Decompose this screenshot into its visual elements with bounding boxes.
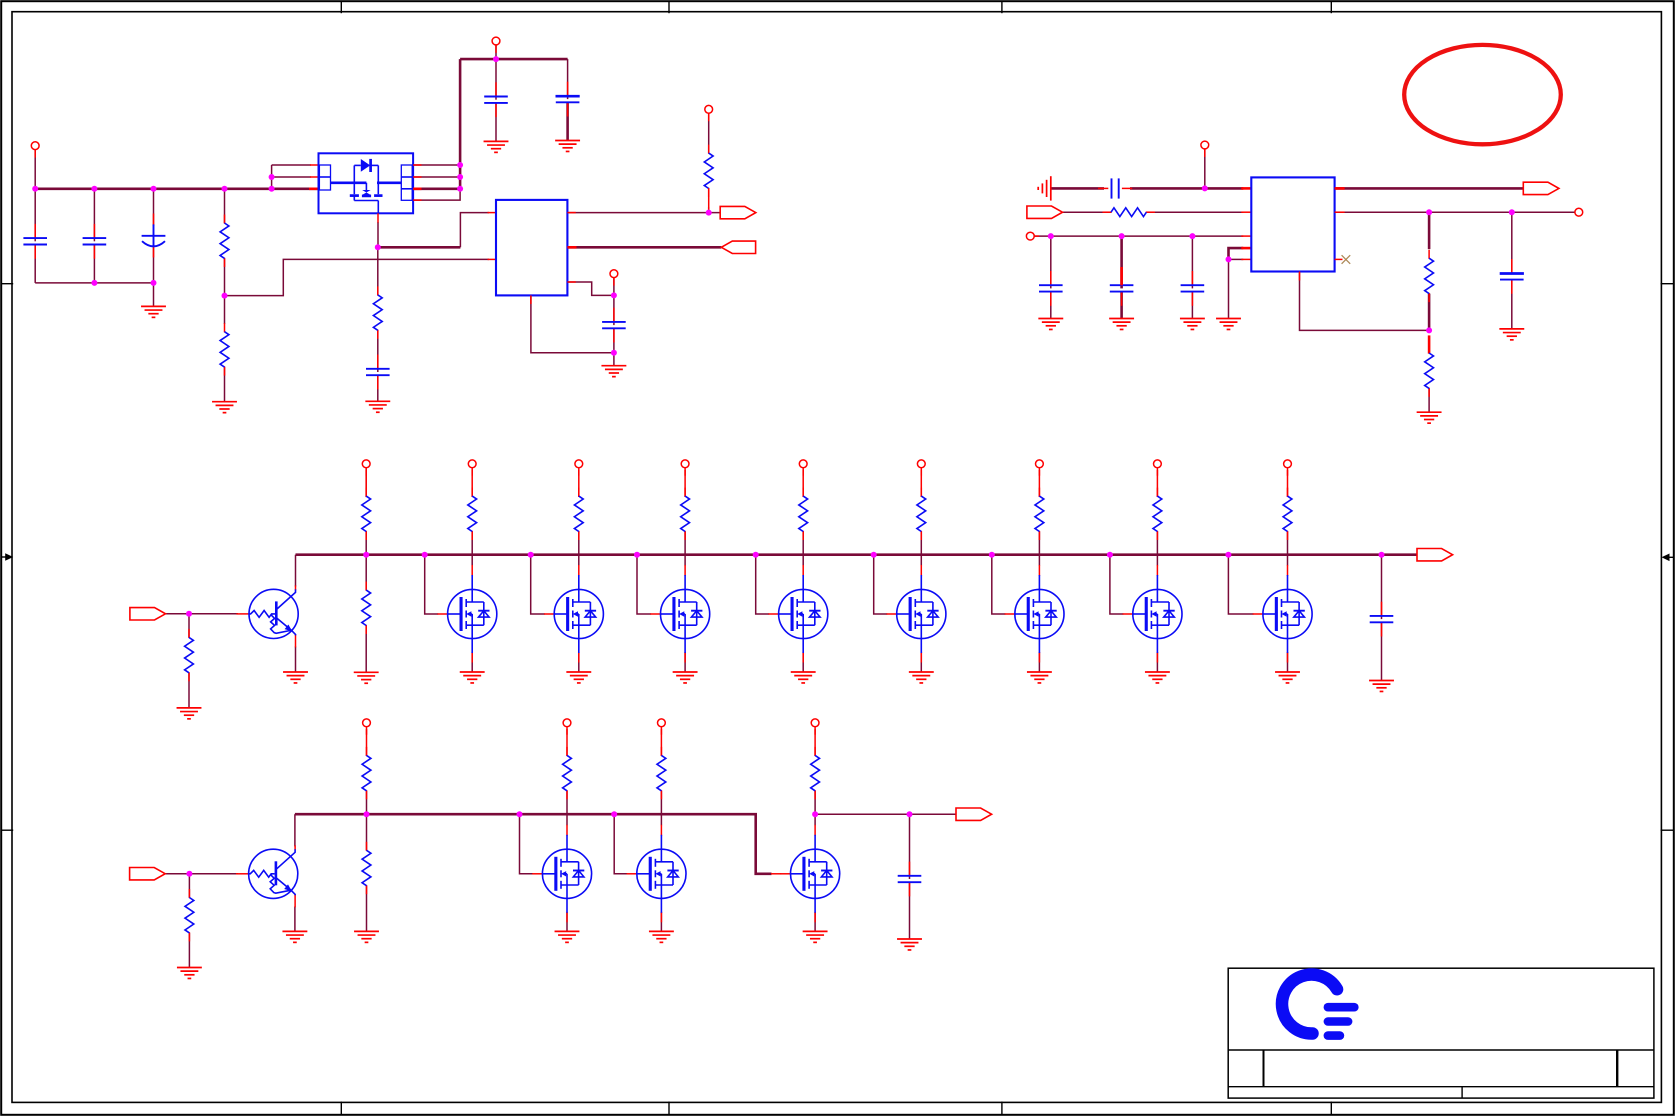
wire C16 top lead	[909, 814, 911, 879]
ground below C15	[1369, 681, 1394, 692]
wire Rp6 to Q7 drain	[1038, 532, 1040, 566]
ground below Q4	[673, 672, 698, 683]
junction bus gate5	[753, 552, 759, 558]
junction R1 R2 tap	[222, 293, 228, 299]
ground below C5	[555, 141, 580, 152]
pin stub Rp1 top	[471, 470, 473, 497]
wire P7 to Q10	[165, 873, 238, 875]
junction bus2 gate2	[611, 811, 617, 817]
pin stub Rb3 top	[814, 729, 816, 756]
wire rail to R1	[224, 189, 226, 223]
power terminal T4	[705, 105, 713, 121]
wire R2 to ground	[224, 367, 226, 401]
left border center arrow	[1, 553, 13, 561]
junction row3 C13	[1189, 233, 1195, 239]
junction row3 C11	[1048, 233, 1054, 239]
wire Q5 source to ground	[802, 653, 804, 672]
wire P5 to Q1	[166, 613, 239, 615]
junction bus gate8	[1107, 552, 1113, 558]
power terminal T7	[1026, 232, 1039, 240]
wire R5 to U3	[1146, 211, 1243, 213]
ground below U3 pins	[1216, 319, 1241, 330]
pin stub Rb1 top	[566, 729, 568, 756]
right border center arrow	[1662, 554, 1675, 562]
capacitor C16	[898, 862, 922, 897]
wire C12 to ground	[1120, 292, 1123, 319]
power terminal mid2	[575, 460, 583, 476]
wire output net	[815, 813, 956, 815]
resistor R7	[1425, 345, 1434, 397]
ground below Q10	[282, 931, 307, 942]
ground below R13	[354, 931, 379, 942]
wire T4 to R4	[708, 113, 710, 153]
pin stub U2 R3	[567, 281, 575, 283]
n-channel MOSFET Q3	[544, 565, 603, 663]
power terminal mid5	[917, 460, 925, 476]
junction vcc pin2	[457, 174, 463, 180]
junction gnd pins	[1226, 256, 1232, 262]
wire Q10 collector to bus	[294, 814, 296, 846]
wire R12 to bus	[366, 791, 368, 814]
port P6 output	[1417, 549, 1453, 561]
polarized capacitor C3	[142, 214, 166, 258]
wire sw chain R3	[377, 247, 379, 295]
wire Rp2 to Q3 drain	[578, 532, 580, 566]
ground below C12	[1109, 319, 1134, 330]
wire to U1 pin2	[272, 176, 311, 178]
junction output cap	[907, 811, 913, 817]
wire Q6 source to ground	[920, 653, 922, 672]
capacitor C13	[1181, 271, 1205, 306]
wire Q1 collector to bus	[295, 555, 297, 587]
capacitor C11	[1039, 271, 1063, 306]
pin stub Rp8 top	[1287, 470, 1289, 497]
pin stub U3 L2	[1241, 211, 1251, 213]
wire U1 R3 out	[413, 188, 460, 191]
wire R13 to ground	[366, 886, 368, 932]
junction pulldown R11	[186, 871, 192, 877]
wire Rp3 to Q4 drain	[684, 532, 686, 566]
ground below C7	[365, 401, 390, 412]
power terminal T3	[610, 270, 618, 286]
no-connect cross U3 R3	[1342, 255, 1351, 264]
wire Rp5 to Q6 drain	[920, 532, 922, 566]
pull-up resistor Rb2	[657, 747, 666, 799]
pin stub Rp5 top	[920, 470, 922, 497]
pin stub U3 R2	[1335, 211, 1345, 213]
capacitor C6	[602, 308, 626, 343]
resistor R1	[220, 215, 229, 267]
wire C2 bottom lead	[93, 245, 95, 283]
n-channel MOSFET Q13	[780, 825, 839, 923]
wire bus2 to R13	[366, 814, 368, 850]
power terminal T8	[362, 460, 370, 476]
wire R3 to C7	[377, 330, 379, 372]
ground below C4	[484, 141, 509, 152]
wire U2 bottom route	[531, 295, 614, 352]
power terminal T1	[31, 142, 39, 158]
wire T1 to rail	[34, 150, 36, 189]
ground below Q12	[649, 931, 674, 942]
wire C3 to ground	[153, 283, 155, 306]
wire Rb3 to Q13 drain	[814, 791, 816, 826]
wire R1 to R2	[224, 258, 226, 295]
ground below C14	[1499, 329, 1524, 340]
wire bot gate2 stub	[614, 814, 627, 874]
wire bot gate1 stub	[520, 814, 534, 874]
right border zone ticks	[1661, 284, 1675, 831]
wire C16 to ground	[909, 882, 911, 939]
pin stub R9 top	[365, 470, 367, 497]
capacitor C1	[23, 224, 47, 259]
wire T5 down	[1204, 149, 1206, 189]
wire T2 down	[495, 45, 497, 59]
pull-up resistor Rp3	[681, 488, 690, 540]
ground below R7	[1417, 412, 1442, 423]
wire Rp1 to Q2 drain	[471, 532, 473, 566]
junction C6 top	[611, 292, 617, 298]
wire C7 to ground	[377, 375, 379, 401]
junction drain output	[812, 811, 818, 817]
wire gate7 stub	[992, 555, 1006, 614]
digital transistor Q10	[236, 845, 298, 907]
pin stub U2 R1	[567, 212, 575, 214]
junction rail C3	[151, 186, 157, 192]
pin stub R7 top	[1428, 335, 1431, 353]
port P3 input	[1027, 206, 1063, 218]
wire gate5 stub	[756, 555, 770, 614]
ground below Q11	[555, 931, 580, 942]
wire Rp7 to Q8 drain	[1156, 532, 1158, 566]
wire T3 down	[613, 278, 615, 296]
wire R8 to ground	[188, 673, 190, 708]
junction bus gate2	[422, 552, 428, 558]
ground below Q2	[460, 672, 485, 683]
junction C6 bottom	[611, 350, 617, 356]
wire Q8 source to ground	[1156, 653, 1158, 672]
junction rail pins	[269, 186, 275, 192]
wire Q10 emitter to ground	[294, 907, 296, 932]
junction rail C2	[91, 186, 97, 192]
power terminal mid3	[681, 460, 689, 476]
pin stub Rp2 top	[578, 470, 580, 497]
capacitor C7	[366, 355, 390, 390]
wire left pins vertical	[271, 165, 273, 189]
capacitor C15	[1370, 602, 1394, 637]
power terminal T9	[363, 719, 371, 735]
gate bus	[296, 553, 1418, 556]
wire R10 to ground	[365, 626, 367, 673]
wire gate8 stub	[1110, 555, 1124, 614]
company logo	[1282, 975, 1354, 1036]
junction bottom C2	[91, 280, 97, 286]
wire C13 to ground	[1191, 292, 1193, 319]
ground below Q8	[1145, 672, 1170, 683]
pin stub Rp3 top	[684, 470, 686, 497]
pull-up resistor Rp2	[574, 488, 583, 540]
wire gate4 stub	[637, 555, 651, 614]
ground below C16	[897, 939, 922, 950]
regulator IC U3	[1251, 177, 1334, 271]
resistor R12	[362, 747, 371, 799]
series resistor R5	[1103, 208, 1155, 217]
wire C3 bottom lead	[153, 246, 155, 283]
pull-up resistor Rp7	[1153, 488, 1162, 540]
junction row3 C12	[1119, 233, 1125, 239]
pin stub U3 R1	[1335, 187, 1345, 190]
ground below R8	[177, 708, 202, 719]
n-channel MOSFET Q5	[768, 565, 827, 663]
port P5 input	[130, 608, 166, 620]
wire C1 top lead	[34, 189, 36, 242]
polarized capacitor C14	[1500, 259, 1524, 294]
wire Q4 source to ground	[684, 653, 686, 672]
wire U3 L4 bend	[1229, 248, 1244, 259]
wire tap to U2 pin	[225, 259, 490, 295]
resistor R2	[220, 323, 229, 375]
resistor R11	[185, 889, 194, 941]
wire C11 top lead	[1050, 236, 1052, 288]
wire R8 top lead	[188, 614, 190, 638]
n-channel MOSFET Q7	[1005, 565, 1064, 663]
junction pulldown R8	[186, 611, 192, 617]
wire C15 top lead	[1381, 555, 1383, 619]
pin stub U1 L2	[310, 176, 319, 178]
wire C12 top lead	[1120, 236, 1123, 288]
pull-up resistor Rp1	[468, 488, 477, 540]
ground below C11	[1038, 319, 1063, 330]
dual MOSFET package U1	[319, 153, 414, 213]
top border zone ticks	[341, 1, 1331, 13]
resistor R10	[362, 582, 371, 634]
pin stub rail to U1	[309, 188, 319, 191]
bottom gnd wire	[35, 282, 153, 284]
wire R11 to ground	[188, 933, 190, 967]
wire U1 R4 out	[413, 189, 460, 200]
junction left pin2	[269, 174, 275, 180]
bottom border zone ticks	[341, 1102, 1331, 1115]
wire R6 to node	[1428, 294, 1431, 331]
wire sw to U2 pin1	[460, 213, 489, 248]
wire U3 R2 row	[1335, 211, 1575, 213]
wire C11 to ground	[1050, 292, 1052, 319]
junction T2 vcc	[493, 56, 499, 62]
ground below C3	[141, 306, 166, 317]
pin stub Rb2 top	[660, 729, 662, 756]
wire C1 bottom lead	[34, 245, 36, 283]
resistor R13	[362, 842, 371, 894]
junction vcc rail	[457, 186, 463, 192]
n-channel MOSFET Q2	[437, 565, 496, 663]
wire gate6 stub	[874, 555, 888, 614]
pin stub R12 top	[366, 729, 368, 756]
pin stub U3 L3	[1241, 235, 1251, 237]
wire U2 R1 to port	[567, 212, 720, 214]
wire out cap lead	[1511, 212, 1513, 270]
junction bus gate4	[634, 552, 640, 558]
port P7 input	[130, 868, 166, 880]
wire Q2 source to ground	[471, 653, 473, 672]
vcc vertical	[459, 59, 462, 189]
power terminal mid6	[1036, 460, 1044, 476]
pin stub R4 bottom long	[708, 188, 710, 210]
port P8 output	[956, 808, 992, 820]
power terminal bot3	[811, 719, 819, 735]
n-channel MOSFET Q9	[1253, 565, 1312, 663]
pin stub Rp4 top	[802, 470, 804, 497]
wire C4 top lead	[495, 59, 497, 100]
wire C13 top lead	[1191, 236, 1193, 288]
port P2 output	[721, 241, 755, 253]
junction bus R9	[363, 552, 369, 558]
wire fb top	[1428, 212, 1431, 249]
wire Q13 source to ground	[814, 912, 816, 931]
power terminal mid4	[799, 460, 807, 476]
digital transistor Q1	[236, 585, 298, 647]
port P1 output	[720, 206, 756, 218]
pin stub U3 bottom	[1299, 272, 1301, 281]
junction fb node	[1426, 327, 1432, 333]
pull-up resistor Rb3	[811, 747, 820, 799]
junction feedback R4	[706, 210, 712, 216]
power rail	[35, 188, 318, 191]
n-channel MOSFET Q6	[887, 565, 946, 663]
wire Q3 source to ground	[578, 653, 580, 672]
pin stub U1 R1	[413, 164, 421, 166]
wire gate2 stub	[425, 555, 439, 614]
junction out cap	[1509, 209, 1515, 215]
resistor R4	[704, 145, 713, 197]
n-channel MOSFET Q8	[1123, 565, 1182, 663]
junction bus C15	[1379, 552, 1385, 558]
wire earth to C10	[1051, 187, 1104, 190]
pin stub U1 L1	[310, 164, 319, 166]
wire U1 bottom to node	[377, 222, 379, 247]
wire tap to R2	[224, 296, 226, 324]
wire Q7 source to ground	[1038, 653, 1040, 672]
wire U1 R1 out	[413, 164, 460, 166]
wire Q9 source to ground	[1287, 653, 1289, 672]
resistor R6	[1425, 250, 1434, 302]
junction fb divider	[1426, 209, 1432, 215]
junction rail C1	[32, 186, 38, 192]
wire R7 to ground	[1428, 388, 1430, 412]
pull-up resistor Rb1	[563, 747, 572, 799]
wire C6 to ground	[613, 353, 615, 366]
junction bus gate3	[528, 552, 534, 558]
ground below R2	[212, 402, 237, 413]
pin stub U1 bottom	[377, 213, 379, 222]
power terminal T2	[492, 37, 500, 53]
pin stub U1 R2	[413, 176, 421, 178]
left border zone ticks	[1, 284, 13, 831]
wire C6 bottom lead	[613, 328, 615, 352]
wire C5 top lead	[567, 59, 569, 99]
pull-up resistor Rp6	[1035, 488, 1044, 540]
junction bus gate6	[871, 552, 877, 558]
pin stub Rp6 top	[1038, 470, 1040, 497]
junction T5	[1202, 185, 1208, 191]
power terminal bot2	[658, 719, 666, 735]
title block	[1228, 968, 1654, 1098]
pin stub U1 R4	[413, 199, 421, 201]
junction vcc pin1	[457, 162, 463, 168]
wire Q12 source to ground	[660, 912, 662, 931]
pin stub U3 L4	[1241, 247, 1251, 250]
pull-up resistor Rp4	[799, 488, 808, 540]
resistor R3	[373, 286, 382, 338]
ground below Q9	[1275, 672, 1300, 683]
polarized capacitor C5	[556, 82, 580, 117]
wire U3 R1 to port	[1335, 187, 1524, 190]
junction sw node	[375, 244, 381, 250]
wire Rp4 to Q5 drain	[802, 532, 804, 566]
pin stub Rp7 top	[1156, 470, 1158, 497]
wire Rp8 to Q9 drain	[1287, 532, 1289, 566]
series capacitor C10	[1112, 178, 1119, 198]
terminal T6	[1575, 208, 1583, 216]
power terminal mid8	[1284, 460, 1292, 476]
pin stub U2 R2	[567, 246, 576, 249]
junction bus2 gate1	[517, 811, 523, 817]
wire bus to R10	[365, 555, 367, 590]
pin stub U3 L1	[1241, 187, 1251, 190]
junction rail R1	[222, 186, 228, 192]
wire C14 to ground	[1511, 280, 1513, 329]
sw node wire	[378, 246, 461, 249]
pin stub C10 left	[1098, 187, 1108, 189]
wire R9 to bus	[365, 532, 367, 555]
wire gate3 stub	[531, 555, 545, 614]
wire C3 top lead	[153, 189, 155, 226]
ground below R11	[177, 968, 202, 979]
power terminal bot1	[563, 719, 571, 735]
red ellipse marking	[1404, 45, 1561, 144]
wire C10 to U3	[1130, 187, 1243, 190]
ground below C13	[1180, 319, 1205, 330]
wire T8 to R9	[365, 468, 367, 497]
wire C5 to ground	[566, 102, 569, 140]
power terminal mid1	[468, 460, 476, 476]
wire Rb2 to Q12 drain	[660, 791, 662, 826]
ground below C6	[601, 366, 626, 377]
wire T7 row	[1034, 235, 1243, 237]
wire U3 bottom route	[1300, 272, 1430, 331]
pin stub U2 bottom	[530, 295, 532, 304]
wire C2 top lead	[93, 189, 95, 242]
wire Q1 emitter to ground	[295, 647, 297, 672]
resistor R9	[362, 488, 371, 540]
n-channel MOSFET Q11	[532, 825, 591, 923]
ground below R10	[354, 672, 379, 683]
pull-up resistor Rp8	[1283, 488, 1292, 540]
wire C4 to ground	[495, 103, 497, 141]
wire U3 L5	[1229, 258, 1244, 260]
ground below Q1	[283, 672, 308, 683]
wire gate9 stub	[1228, 555, 1253, 614]
capacitor C12	[1110, 267, 1134, 306]
power terminal T5	[1201, 141, 1209, 157]
power terminal mid7	[1154, 460, 1162, 476]
ground below Q3	[566, 672, 591, 683]
capacitor C4	[484, 82, 508, 117]
resistor R8	[185, 629, 194, 681]
n-channel MOSFET Q12	[627, 825, 686, 923]
chassis earth symbol	[1038, 176, 1051, 200]
ground below Q5	[791, 672, 816, 683]
wire R11 top lead	[188, 874, 190, 898]
junction bus2 R12	[364, 811, 370, 817]
